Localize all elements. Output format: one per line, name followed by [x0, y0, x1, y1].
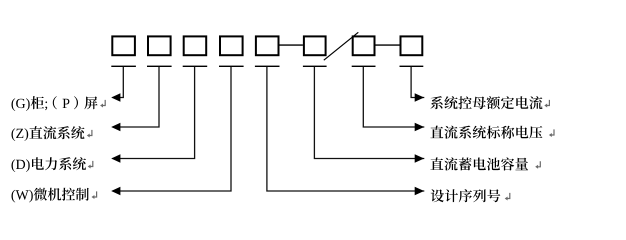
bar under box 3	[183, 66, 208, 67]
label (W)微机控制	[12, 188, 89, 203]
wire drop from box 2	[113, 67, 159, 127]
box 4	[220, 36, 243, 55]
label 直流蓄电池容量	[430, 157, 528, 170]
box 8	[401, 36, 423, 55]
bar under box 8	[400, 66, 424, 67]
paragraph mark 8	[505, 193, 510, 201]
bar under box 1	[111, 66, 136, 67]
arrowhead left row 4	[111, 187, 120, 195]
box 1	[112, 36, 135, 55]
box 6	[304, 36, 326, 55]
paragraph mark 4	[92, 191, 97, 199]
paragraph mark 6	[549, 129, 554, 137]
bar under box 4	[219, 66, 244, 67]
bar under box 6	[303, 66, 327, 67]
arrowhead left row 1	[111, 93, 120, 101]
paragraph mark 3	[88, 161, 93, 169]
arrowhead left row 2	[111, 123, 120, 131]
slash separator between box6 and box7	[324, 32, 359, 60]
paragraph mark 7	[535, 161, 540, 169]
wire drop from box 5	[267, 67, 424, 191]
paragraph mark 2	[87, 130, 92, 138]
label (G)柜;（P）屏	[12, 96, 98, 111]
wire drop from box 6	[314, 67, 424, 159]
bar under box 5	[255, 66, 280, 67]
arrowhead right row 3	[415, 154, 424, 162]
wire drop from box 4	[113, 67, 231, 191]
wire drop from box 3	[113, 67, 195, 159]
arrowhead left row 3	[111, 154, 120, 162]
paragraph mark 1	[100, 100, 105, 108]
box 7	[353, 36, 375, 55]
wire connector box7-box8	[376, 44, 400, 46]
label 直流系统标称电压	[430, 126, 542, 139]
bar under box 7	[352, 66, 376, 67]
wire connector box5-box6	[280, 44, 303, 46]
arrowhead right row 4	[415, 187, 424, 195]
arrowhead right row 1	[415, 93, 424, 101]
wire drop from box 7	[363, 67, 424, 127]
label (Z)直流系统	[12, 126, 85, 141]
label 系统控母额定电流	[430, 96, 542, 109]
box 5	[256, 36, 279, 55]
box 3	[184, 36, 207, 55]
paragraph mark 5	[544, 100, 549, 108]
bar under box 2	[147, 66, 172, 67]
wire drop from box 1	[113, 67, 124, 98]
label (D)电力系统	[12, 157, 87, 172]
wire drop from box 8	[411, 67, 424, 98]
box 2	[148, 36, 171, 55]
label 设计序列号	[431, 189, 501, 202]
arrowhead right row 2	[415, 123, 424, 131]
